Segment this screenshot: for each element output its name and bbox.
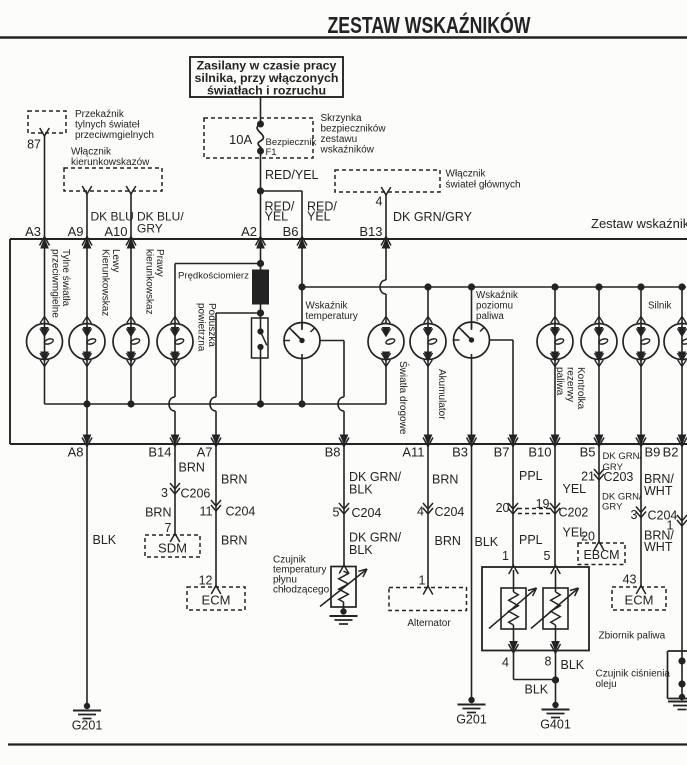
svg-text:Akumulator: Akumulator [436, 369, 447, 420]
svg-text:BRN: BRN [221, 534, 247, 548]
svg-text:A3: A3 [25, 224, 41, 239]
svg-text:BRN: BRN [435, 534, 461, 548]
svg-text:20: 20 [496, 501, 510, 515]
svg-text:BLK: BLK [349, 543, 373, 557]
svg-text:B7: B7 [494, 445, 510, 460]
svg-text:87: 87 [27, 138, 41, 152]
svg-text:Prawykierunkowskaz: Prawykierunkowskaz [143, 249, 165, 315]
svg-text:kierunkowskazów: kierunkowskazów [71, 157, 150, 168]
svg-text:temperatury: temperatury [306, 311, 358, 322]
svg-text:światłach i rozruchu: światłach i rozruchu [207, 84, 326, 98]
svg-text:F1: F1 [266, 147, 277, 158]
svg-text:DK BLU: DK BLU [91, 210, 134, 224]
svg-text:1: 1 [502, 549, 509, 563]
svg-text:GRY: GRY [602, 502, 623, 513]
svg-text:ECM: ECM [202, 593, 231, 608]
svg-text:C204: C204 [435, 505, 465, 519]
svg-text:BLK: BLK [525, 683, 549, 697]
svg-text:10A: 10A [229, 132, 252, 147]
svg-text:WHT: WHT [644, 484, 673, 498]
svg-text:YEL: YEL [265, 210, 289, 224]
svg-text:B2: B2 [663, 445, 679, 460]
svg-text:11: 11 [200, 505, 213, 519]
svg-text:chłodzącego: chłodzącego [273, 585, 330, 596]
svg-text:A2: A2 [241, 224, 257, 239]
svg-text:YEL: YEL [563, 482, 587, 496]
svg-text:YEL: YEL [307, 210, 331, 224]
svg-text:4: 4 [502, 656, 509, 670]
svg-text:Wskaźnik: Wskaźnik [306, 301, 348, 312]
svg-text:G201: G201 [456, 713, 487, 727]
svg-text:oleju: oleju [596, 679, 617, 690]
svg-text:BLK: BLK [561, 658, 585, 672]
svg-text:1: 1 [667, 519, 674, 533]
svg-text:SDM: SDM [158, 541, 187, 556]
svg-text:poziomu: poziomu [476, 301, 513, 312]
svg-text:Światła drogowe: Światła drogowe [397, 361, 410, 435]
svg-text:RED/YEL: RED/YEL [265, 168, 319, 182]
svg-text:C203: C203 [604, 470, 634, 484]
svg-text:12: 12 [199, 574, 213, 588]
svg-text:21: 21 [581, 470, 595, 484]
svg-text:B10: B10 [528, 445, 551, 460]
svg-text:Przekaźnik: Przekaźnik [75, 109, 125, 120]
svg-text:20: 20 [581, 530, 595, 544]
svg-text:wskaźników: wskaźników [320, 145, 375, 156]
svg-text:C202: C202 [559, 506, 589, 520]
svg-text:5: 5 [544, 549, 551, 563]
svg-text:BLK: BLK [349, 483, 373, 497]
svg-text:zestawu: zestawu [321, 134, 358, 145]
svg-text:Silnik: Silnik [648, 301, 672, 312]
svg-text:4: 4 [376, 195, 383, 209]
svg-text:Wskaźnik: Wskaźnik [476, 290, 518, 301]
svg-text:B14: B14 [148, 445, 171, 460]
svg-text:C206: C206 [181, 487, 211, 501]
svg-text:A10: A10 [104, 224, 127, 239]
svg-text:GRY: GRY [137, 222, 163, 236]
svg-text:Tylne światłaprzeciwmgielne: Tylne światłaprzeciwmgielne [49, 249, 71, 318]
svg-text:EBCM: EBCM [583, 548, 619, 562]
svg-text:BLK: BLK [475, 535, 499, 549]
svg-text:LewyKierunkowskaz: LewyKierunkowskaz [99, 249, 121, 316]
svg-text:43: 43 [623, 573, 637, 587]
svg-text:WHT: WHT [644, 540, 673, 554]
svg-text:tylnych świateł: tylnych świateł [75, 120, 140, 131]
svg-text:C204: C204 [226, 505, 256, 519]
svg-text:BRN: BRN [145, 506, 171, 520]
svg-text:ECM: ECM [625, 593, 654, 608]
svg-text:A9: A9 [68, 224, 84, 239]
svg-text:A11: A11 [402, 445, 424, 460]
svg-text:Poduszkapowietrzna: Poduszkapowietrzna [195, 303, 217, 352]
svg-text:G201: G201 [72, 719, 103, 733]
svg-text:przeciwmgielnych: przeciwmgielnych [75, 130, 154, 141]
svg-text:DK GRN/GRY: DK GRN/GRY [393, 210, 473, 224]
svg-text:BLK: BLK [93, 533, 117, 547]
svg-text:3: 3 [161, 486, 168, 500]
svg-text:paliwa: paliwa [476, 311, 504, 322]
svg-text:PPL: PPL [519, 533, 543, 547]
svg-text:B6: B6 [283, 224, 299, 239]
svg-text:Alternator: Alternator [407, 618, 451, 629]
svg-text:7: 7 [165, 521, 172, 535]
svg-text:B13: B13 [359, 224, 382, 239]
svg-text:Skrzynka: Skrzynka [321, 113, 363, 124]
svg-text:A7: A7 [197, 445, 213, 460]
svg-text:B8: B8 [325, 445, 341, 460]
svg-text:B3: B3 [452, 445, 468, 460]
svg-text:Włącznik: Włącznik [446, 169, 487, 180]
svg-text:B9: B9 [645, 445, 661, 460]
svg-text:Kontrolkarezerwypaliwa: Kontrolkarezerwypaliwa [554, 367, 586, 410]
svg-text:C204: C204 [352, 506, 382, 520]
svg-text:Zestaw wskaźników: Zestaw wskaźników [591, 216, 687, 231]
svg-text:Prędkościomierz: Prędkościomierz [178, 271, 249, 282]
svg-text:Włącznik: Włącznik [71, 147, 112, 158]
svg-text:świateł głównych: świateł głównych [446, 180, 521, 191]
svg-text:PPL: PPL [519, 469, 543, 483]
svg-text:Zbiornik paliwa: Zbiornik paliwa [599, 631, 666, 642]
svg-text:1: 1 [419, 574, 426, 588]
svg-text:BRN: BRN [179, 461, 205, 475]
svg-text:BRN: BRN [221, 473, 247, 487]
svg-text:A8: A8 [68, 445, 84, 460]
svg-text:B5: B5 [580, 445, 596, 460]
svg-text:Czujnik ciśnienia: Czujnik ciśnienia [596, 669, 671, 680]
svg-text:DK GRN/: DK GRN/ [603, 451, 643, 462]
svg-text:BRN: BRN [432, 473, 458, 487]
svg-text:G401: G401 [540, 718, 571, 732]
svg-text:ZESTAW WSKAŹNIKÓW: ZESTAW WSKAŹNIKÓW [328, 11, 531, 38]
svg-text:8: 8 [545, 655, 552, 669]
svg-text:bezpieczników: bezpieczników [321, 124, 387, 135]
svg-text:3: 3 [631, 508, 638, 522]
svg-text:4: 4 [417, 505, 424, 519]
svg-text:5: 5 [333, 506, 340, 520]
